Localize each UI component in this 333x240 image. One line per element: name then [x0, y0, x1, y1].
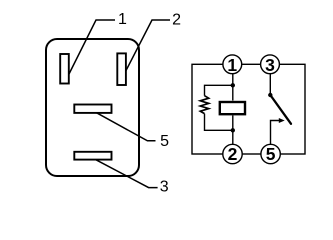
leader line to label 3: [96, 160, 158, 188]
svg-text:2: 2: [228, 144, 238, 164]
resistor (zigzag): [200, 96, 208, 114]
relay coil box: [220, 102, 245, 114]
terminal circle 5: [261, 144, 280, 163]
svg-text:3: 3: [160, 178, 169, 195]
wire: top node to resistor top: [205, 85, 233, 95]
wire: terminal 1 down through coil node: [232, 74, 234, 101]
wire: terminal 5 up and right to arrow: [271, 121, 280, 145]
switch blade: [270, 95, 291, 124]
pin slot 1 (vertical, top-left): [60, 54, 69, 84]
svg-text:5: 5: [160, 133, 169, 150]
terminal circle 3: [261, 55, 280, 74]
wire: coil bottom to terminal 2: [232, 116, 234, 145]
arrowhead pointing at blade: [279, 118, 285, 123]
svg-text:1: 1: [227, 55, 237, 75]
switch pivot dot: [268, 93, 272, 97]
svg-text:5: 5: [266, 144, 276, 164]
leader line to label 2: [126, 20, 170, 71]
pin slot 5 (horizontal, middle): [74, 105, 111, 113]
pin slot 2 (vertical, top-right): [117, 53, 126, 85]
svg-text:2: 2: [172, 11, 181, 28]
svg-text:3: 3: [265, 55, 275, 75]
wire: terminal 3 down to switch pivot: [269, 74, 271, 95]
terminal circle 1: [223, 55, 242, 74]
junction dot (top of coil): [231, 83, 235, 87]
leader line to label 1: [69, 20, 115, 74]
wire: resistor bottom to bottom node: [205, 114, 233, 131]
svg-text:1: 1: [118, 11, 127, 28]
relay connector body: [46, 39, 139, 176]
schematic frame: [192, 64, 305, 154]
terminal circle 2: [223, 144, 242, 163]
junction dot (bottom of coil): [231, 128, 235, 132]
leader line to label 5: [96, 113, 155, 141]
pin slot 3 (horizontal, bottom): [74, 152, 111, 160]
